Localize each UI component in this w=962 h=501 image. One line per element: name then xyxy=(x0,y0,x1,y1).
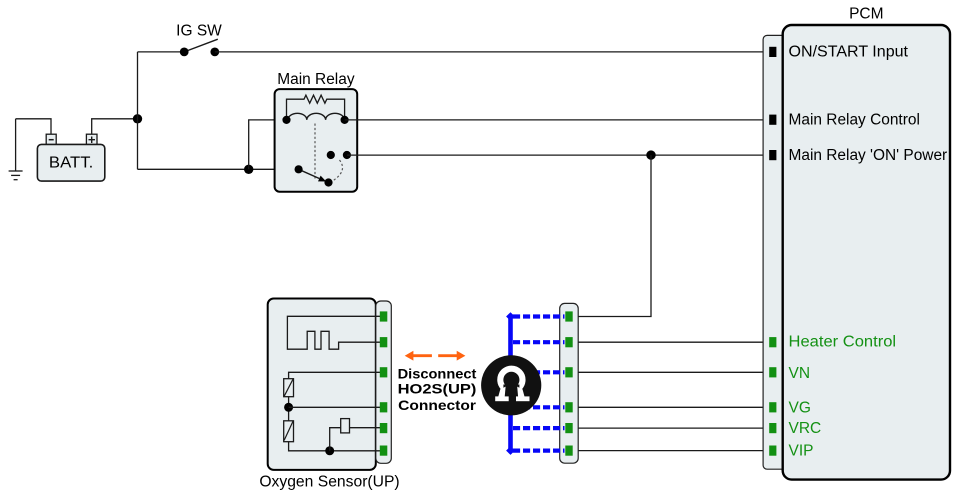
relay switch blade xyxy=(299,169,320,178)
PCM pin Main Relay Control black xyxy=(769,115,776,125)
sensor wire VN row into cell xyxy=(289,372,381,378)
sensor heater resistor lower xyxy=(284,421,294,442)
PCM pin ON/START black xyxy=(769,47,776,57)
svg-text:PCM: PCM xyxy=(849,6,883,23)
svg-text:VIP: VIP xyxy=(789,443,814,460)
ohmmeter blue bus xyxy=(508,316,513,451)
wire ON power drop to harness pin 1 xyxy=(569,155,651,316)
blue dashed probe leads xyxy=(513,317,565,451)
harness connector strip xyxy=(560,303,579,463)
relay resistor xyxy=(287,95,345,120)
PCM pin VRC green xyxy=(769,423,776,433)
svg-text:VN: VN xyxy=(789,365,811,382)
svg-text:VRC: VRC xyxy=(789,420,822,437)
harness strip pins green xyxy=(565,311,572,455)
svg-text:Main Relay Control: Main Relay Control xyxy=(789,112,920,129)
blue bus bottom diamond xyxy=(506,446,515,455)
PCM pin VIP green xyxy=(769,446,776,456)
wire harness pin4 to VG xyxy=(569,406,770,408)
node sensor VG junction xyxy=(284,403,293,412)
node sensor VIP junction xyxy=(325,446,334,455)
ohmmeter body xyxy=(481,355,541,415)
switch IG SW xyxy=(138,23,223,57)
wire relay coil to PCM Main Relay Control xyxy=(345,119,770,121)
wire heater return VIP row xyxy=(289,442,381,451)
svg-text:Connector: Connector xyxy=(398,398,477,413)
label Disconnect HO2S(UP) Connector xyxy=(398,367,477,413)
ground xyxy=(9,119,23,180)
PCM connector strip xyxy=(763,35,788,469)
blue bus top diamond xyxy=(506,312,515,321)
wire coil feed xyxy=(249,120,287,169)
svg-text:Heater Control: Heater Control xyxy=(789,334,897,351)
wire VG row xyxy=(289,406,381,408)
PCM pin VG green xyxy=(769,402,776,412)
node battery junction xyxy=(133,114,142,123)
oxygen sensor box xyxy=(259,299,399,491)
svg-text:ON/START Input: ON/START Input xyxy=(789,44,909,61)
wire battery positive to node xyxy=(92,119,138,134)
wire vertical feed xyxy=(137,52,139,169)
wire lower feed to relay xyxy=(138,168,299,170)
ohmmeter omega symbol xyxy=(495,369,529,402)
svg-text:HO2S(UP): HO2S(UP) xyxy=(398,382,477,397)
sensor signal waveform wire xyxy=(287,316,381,349)
svg-text:Main Relay 'ON' Power: Main Relay 'ON' Power xyxy=(789,147,948,164)
sensor strip pins green xyxy=(380,311,388,455)
PCM pin Heater Control green xyxy=(769,337,776,347)
svg-text:Oxygen Sensor(UP): Oxygen Sensor(UP) xyxy=(259,473,399,490)
wire IG SW to PCM ON/START xyxy=(215,51,770,53)
PCM pin Main Relay ON Power black xyxy=(769,150,776,160)
wire VRC branch xyxy=(330,428,341,451)
svg-text:Main Relay: Main Relay xyxy=(277,71,355,88)
PCM labels xyxy=(789,44,948,164)
PCM box xyxy=(783,6,950,480)
PCM pin VN green xyxy=(769,367,776,377)
disconnect arrows orange xyxy=(405,351,466,361)
relay switch travel arc dashed xyxy=(333,160,343,181)
svg-text:BATT.: BATT. xyxy=(49,155,93,172)
wire element to VRC pin xyxy=(350,427,382,429)
wire between resistors xyxy=(288,397,290,421)
relay coil xyxy=(288,113,344,120)
svg-text:Disconnect: Disconnect xyxy=(398,367,477,382)
wire harness pin5 to VRC xyxy=(569,427,770,429)
node relay coil right xyxy=(341,116,349,124)
sensor heater resistor upper xyxy=(284,379,294,397)
node ON power junction xyxy=(646,150,655,159)
wire harness pin2 to Heater Control xyxy=(569,341,770,343)
svg-text:IG SW: IG SW xyxy=(176,23,222,40)
node relay feed junction xyxy=(244,165,253,174)
svg-text:VG: VG xyxy=(789,400,811,417)
wire battery negative to ground xyxy=(16,119,51,135)
wire harness pin3 to VN xyxy=(569,371,770,373)
oxygen sensor connector strip xyxy=(376,301,392,463)
node relay coil left xyxy=(282,116,290,124)
wire relay contact to PCM Main Relay ON Power xyxy=(347,154,770,156)
wire harness pin6 to VIP xyxy=(569,450,770,452)
relay NO contacts xyxy=(327,151,335,159)
battery BATT. xyxy=(37,134,104,181)
sensor series element box xyxy=(341,419,350,433)
relay box Main Relay xyxy=(275,71,358,192)
relay armature dashed link xyxy=(314,124,316,181)
